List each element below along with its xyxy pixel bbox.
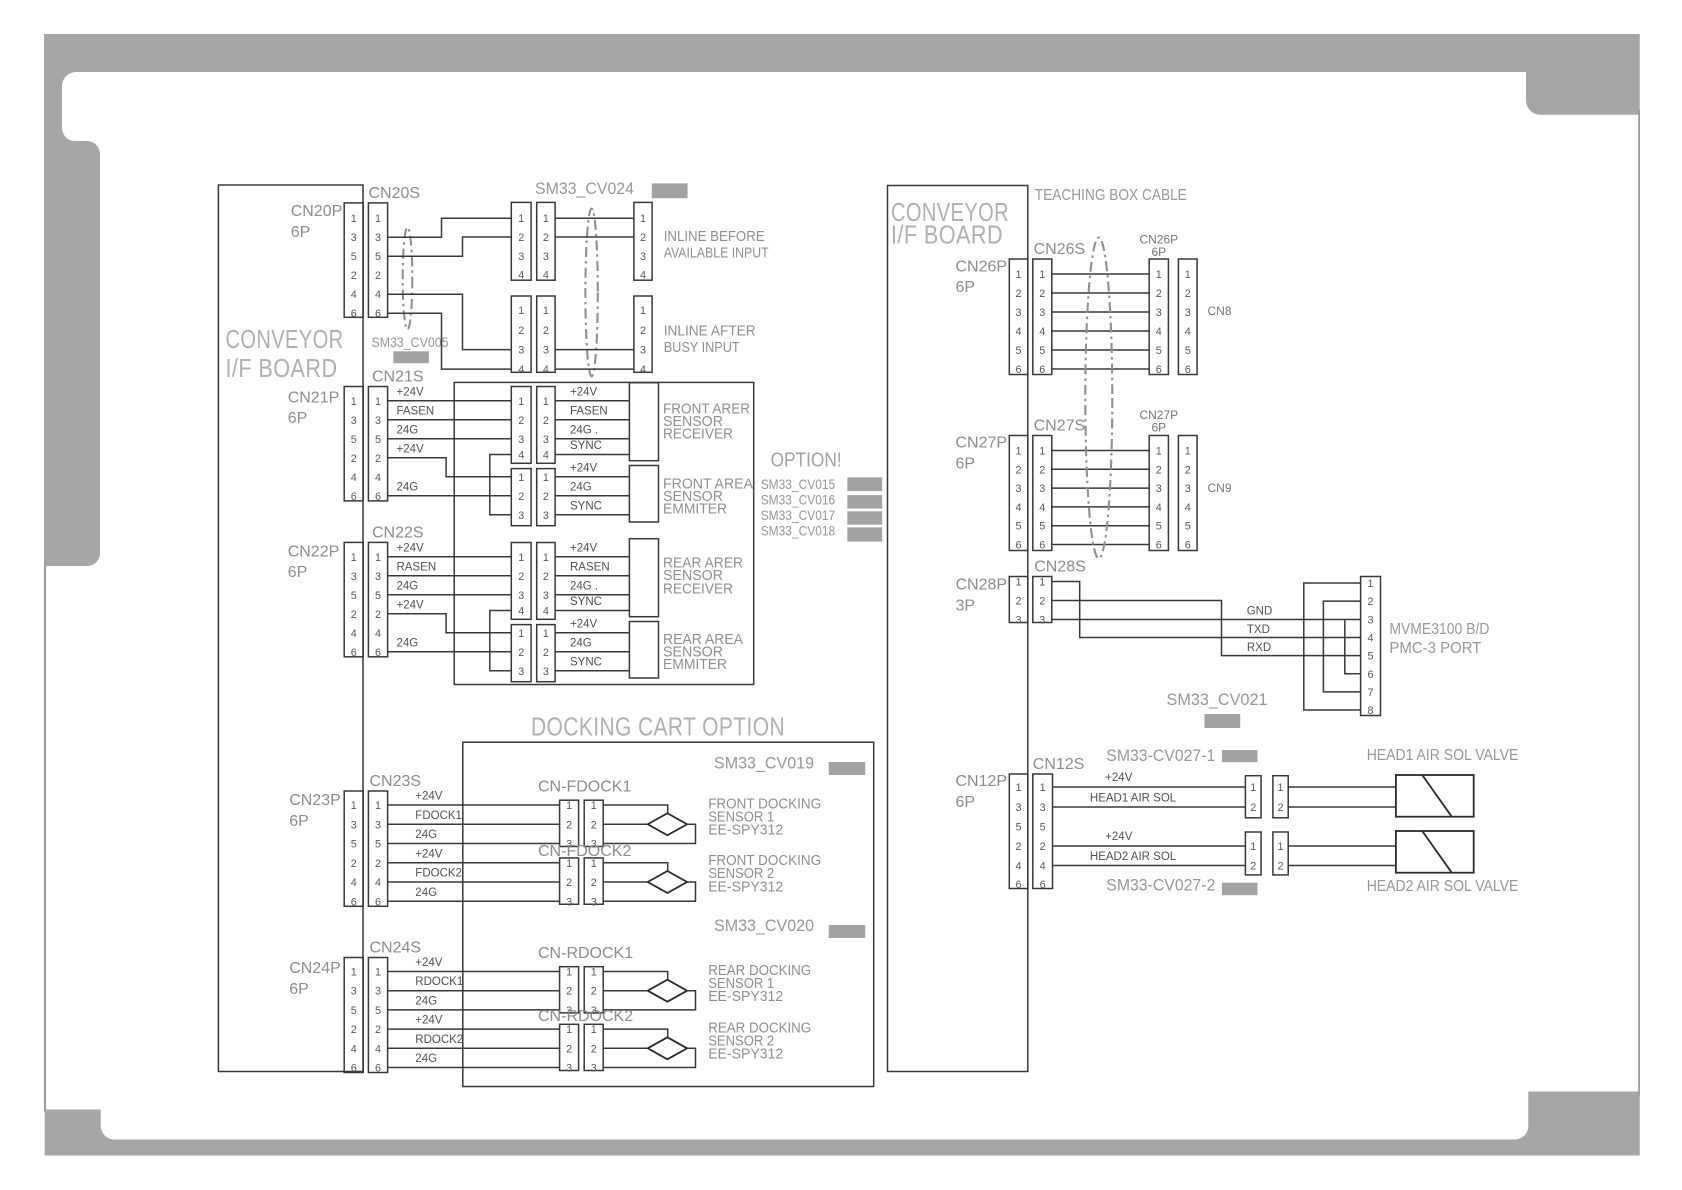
svg-text:2: 2 [1250, 861, 1256, 873]
svg-text:3: 3 [1039, 483, 1045, 495]
wires head2 socket to valve [1288, 846, 1396, 866]
svg-text:6: 6 [1185, 540, 1191, 552]
svg-text:3: 3 [1185, 483, 1191, 495]
svg-text:3: 3 [1368, 614, 1374, 626]
svg-text:2: 2 [351, 609, 357, 621]
svg-text:3: 3 [518, 345, 524, 357]
wire CN28S pin3 GND to MVME pin3 [1052, 619, 1361, 621]
svg-text:4: 4 [1016, 502, 1022, 514]
svg-text:1: 1 [375, 213, 381, 225]
connector inline-before device pins [634, 202, 652, 281]
sensor diamond FRONT DOCKING SENSOR 1 EE-SPY312 [648, 813, 687, 835]
svg-text:2: 2 [375, 453, 381, 465]
svg-text:+24V: +24V [415, 791, 443, 803]
conveyor I/F board (right) outline [888, 186, 1028, 1072]
svg-text:6: 6 [375, 308, 381, 320]
svg-text:SM33_CV020: SM33_CV020 [714, 917, 814, 935]
svg-text:3: 3 [375, 986, 381, 998]
svg-text:1: 1 [543, 552, 549, 564]
connector CN8 [1178, 259, 1197, 376]
svg-text:3: 3 [518, 666, 524, 678]
svg-text:5: 5 [1156, 521, 1162, 533]
svg-text:2: 2 [375, 858, 381, 870]
svg-text:2: 2 [543, 415, 549, 427]
svg-text:AVAILABLE INPUT: AVAILABLE INPUT [664, 246, 769, 262]
svg-text:2: 2 [1039, 464, 1045, 476]
svg-text:5: 5 [351, 839, 357, 851]
wire loop MVME pin2 to pin7 [1323, 601, 1360, 692]
svg-text:+24V: +24V [415, 1015, 443, 1027]
connector CN12P [1009, 774, 1028, 891]
svg-text:2: 2 [1185, 464, 1191, 476]
svg-text:1: 1 [1039, 446, 1045, 458]
svg-text:2: 2 [543, 232, 549, 244]
svg-text:6: 6 [351, 308, 357, 320]
svg-text:24G: 24G [415, 995, 437, 1007]
svg-text:4: 4 [518, 269, 524, 281]
connector CN24S [368, 958, 387, 1075]
svg-text:SM33_CV018: SM33_CV018 [761, 523, 836, 539]
label FRONT DOCKING SENSOR 1 EE-SPY312 [708, 797, 821, 839]
svg-text:1: 1 [566, 800, 572, 812]
svg-text:3: 3 [1156, 307, 1162, 319]
svg-text:+24V: +24V [397, 542, 425, 554]
svg-text:3: 3 [518, 510, 524, 522]
svg-text:1: 1 [518, 472, 524, 484]
svg-text:24G: 24G [415, 829, 437, 841]
svg-text:+24V: +24V [570, 542, 598, 554]
svg-text:SYNC: SYNC [570, 596, 602, 608]
svg-text:2: 2 [640, 232, 646, 244]
svg-text:24G: 24G [570, 481, 592, 493]
svg-text:RASEN: RASEN [570, 561, 610, 573]
svg-text:2: 2 [351, 453, 357, 465]
svg-text:4: 4 [351, 1043, 357, 1055]
svg-text:4: 4 [351, 472, 357, 484]
svg-text:CN24S: CN24S [370, 940, 422, 957]
svg-text:1: 1 [351, 213, 357, 225]
label REAR AREA SENSOR EMMITER [663, 632, 743, 673]
svg-text:6: 6 [1016, 879, 1022, 891]
svg-text:CN23P: CN23P [289, 792, 341, 809]
wire CN12S pin3 HEAD1 AIR SOL [1053, 806, 1246, 808]
wires rear receiver socket to device [555, 557, 629, 611]
wire inline-after socket pin3 to device [555, 349, 634, 351]
svg-text:CN20S: CN20S [369, 185, 421, 202]
label CN26P 6P (remote) [1139, 233, 1178, 260]
svg-text:6: 6 [375, 491, 381, 503]
svg-text:3: 3 [518, 590, 524, 602]
wire CN23S FDOCK1 row2 [388, 823, 560, 825]
device box FRONT AREA SENSOR EMMITER [629, 466, 658, 523]
wire CN23S +24V row1 [388, 804, 560, 806]
svg-text:CN-FDOCK1: CN-FDOCK1 [538, 779, 631, 796]
svg-text:1: 1 [1250, 841, 1256, 853]
svg-text:5: 5 [1039, 345, 1045, 357]
svg-text:6: 6 [1016, 540, 1022, 552]
connector CN28P [1009, 577, 1028, 627]
svg-text:1: 1 [566, 967, 572, 979]
svg-text:6: 6 [1039, 364, 1045, 376]
svg-text:3: 3 [1039, 307, 1045, 319]
svg-text:2: 2 [351, 858, 357, 870]
label CN21P 6P [288, 389, 340, 427]
device box FRONT ARER SENSOR RECEIVER [629, 383, 658, 461]
svg-text:3: 3 [543, 510, 549, 522]
svg-text:3: 3 [375, 819, 381, 831]
wires CN27S to remote CN27P (6 lines) [1052, 451, 1149, 545]
svg-text:6P: 6P [1151, 421, 1166, 435]
connector inline-before plug [511, 202, 531, 281]
wires front receiver socket to device [555, 401, 629, 455]
svg-text:HEAD2 AIR SOL VALVE: HEAD2 AIR SOL VALVE [1367, 878, 1519, 895]
svg-text:1: 1 [543, 305, 549, 317]
svg-text:1: 1 [375, 800, 381, 812]
svg-text:2: 2 [543, 571, 549, 583]
color chip SM33-CV027-2 [1222, 883, 1258, 896]
label REAR DOCKING SENSOR 2 EE-SPY312 [708, 1021, 811, 1063]
svg-text:EE-SPY312: EE-SPY312 [708, 823, 783, 839]
svg-text:6: 6 [1016, 364, 1022, 376]
svg-text:5: 5 [375, 251, 381, 263]
svg-text:3: 3 [1040, 802, 1046, 814]
svg-text:3: 3 [518, 434, 524, 446]
svg-text:SM33_CV016: SM33_CV016 [761, 492, 836, 508]
svg-text:4: 4 [375, 472, 381, 484]
connector CN27P (remote) [1149, 436, 1168, 552]
svg-text:5: 5 [351, 1005, 357, 1017]
svg-text:2: 2 [591, 877, 597, 889]
svg-text:24G: 24G [397, 637, 419, 649]
connector rear-receiver plug [511, 543, 531, 620]
svg-text:5: 5 [351, 251, 357, 263]
svg-text:1: 1 [518, 213, 524, 225]
svg-text:3: 3 [543, 666, 549, 678]
wire CN-RDOCK2 pin3 to diamond right [603, 1048, 695, 1067]
svg-text:3: 3 [543, 434, 549, 446]
svg-text:6: 6 [351, 491, 357, 503]
connector CN21P [344, 387, 363, 503]
color chip SM33_CV005 [393, 351, 429, 363]
svg-text:4: 4 [1185, 326, 1191, 338]
wire inline-before socket pin1 to device [555, 217, 634, 219]
connector front-emitter plug [511, 469, 531, 526]
wire CN12S pin4 HEAD2 AIR SOL [1053, 865, 1246, 867]
svg-text:6P: 6P [288, 564, 308, 581]
connector MVME3100 PMC-3 port [1361, 577, 1381, 718]
connector CN22S [368, 542, 387, 658]
color chip SM33_CV021 [1205, 714, 1241, 728]
wire CN24S +24V row1 [388, 971, 560, 973]
svg-text:4: 4 [518, 364, 524, 376]
svg-text:CN28P: CN28P [956, 577, 1008, 594]
svg-text:1: 1 [375, 396, 381, 408]
wire CN23S 24G row3 [388, 843, 560, 845]
svg-text:4: 4 [351, 289, 357, 301]
svg-text:1: 1 [591, 967, 597, 979]
svg-text:CN26P: CN26P [956, 259, 1008, 276]
wire CN-FDOCK1 pin2 to diamond left [603, 823, 648, 825]
svg-text:2: 2 [1156, 464, 1162, 476]
svg-text:+24V: +24V [397, 443, 425, 455]
connector inline-after device pins [634, 296, 652, 376]
svg-text:1: 1 [1156, 269, 1162, 281]
svg-text:1: 1 [640, 213, 646, 225]
svg-text:1: 1 [1016, 577, 1022, 589]
sensor option enclosure box [454, 382, 754, 684]
svg-text:I/F BOARD: I/F BOARD [891, 220, 1003, 250]
svg-text:1: 1 [1156, 446, 1162, 458]
svg-text:3: 3 [351, 232, 357, 244]
svg-text:EMMITER: EMMITER [663, 657, 727, 673]
svg-text:TXD: TXD [1247, 624, 1270, 636]
color chip SM33_CV017 [847, 511, 882, 524]
svg-text:HEAD1 AIR SOL VALVE: HEAD1 AIR SOL VALVE [1367, 747, 1519, 764]
connector CN-FDOCK2 socket [584, 858, 603, 909]
connector CN-RDOCK2 socket [584, 1024, 603, 1074]
valve HEAD1 AIR SOL VALVE [1396, 775, 1474, 817]
conveyor I/F board (left) outline [218, 185, 363, 1072]
svg-text:2: 2 [1016, 841, 1022, 853]
svg-text:4: 4 [1185, 502, 1191, 514]
svg-text:4: 4 [543, 606, 549, 618]
svg-text:4: 4 [640, 364, 646, 376]
svg-text:4: 4 [375, 289, 381, 301]
svg-text:5: 5 [375, 434, 381, 446]
svg-text:5: 5 [375, 1005, 381, 1017]
wire CN20S pin5 to plug pin2 [388, 237, 512, 256]
connector CN20P [344, 203, 363, 320]
device box REAR ARER SENSOR RECEIVER [629, 539, 658, 617]
svg-text:6: 6 [375, 647, 381, 659]
svg-text:CN9: CN9 [1208, 481, 1232, 495]
wire CN-RDOCK2 pin1 to diamond top [603, 1029, 668, 1037]
svg-text:2: 2 [518, 571, 524, 583]
svg-text:RECEIVER: RECEIVER [663, 582, 733, 598]
connector inline-after socket [537, 296, 555, 376]
wire CN-FDOCK1 pin1 to diamond top [603, 805, 668, 813]
svg-text:1: 1 [1250, 782, 1256, 794]
svg-text:2: 2 [566, 819, 572, 831]
svg-text:3: 3 [640, 251, 646, 263]
svg-text:3: 3 [1185, 307, 1191, 319]
svg-text:3: 3 [375, 571, 381, 583]
svg-text:I/F BOARD: I/F BOARD [226, 353, 338, 383]
svg-text:4: 4 [543, 364, 549, 376]
svg-text:CN-RDOCK2: CN-RDOCK2 [538, 1008, 633, 1025]
svg-text:SM33_CV021: SM33_CV021 [1167, 691, 1268, 709]
connector rear-emitter plug [511, 625, 531, 682]
net labels +24V FASEN 24G SYNC (front receiver) [570, 386, 608, 452]
svg-text:CN12S: CN12S [1033, 756, 1085, 773]
svg-text:RASEN: RASEN [397, 561, 437, 573]
svg-text:2: 2 [591, 986, 597, 998]
connector CN-FDOCK2 plug [560, 858, 579, 909]
svg-text:SM33-CV027-1: SM33-CV027-1 [1106, 747, 1215, 765]
svg-text:6: 6 [351, 896, 357, 908]
label CN28P 3P [956, 577, 1008, 615]
wire CN23S +24V row4 [388, 862, 560, 864]
svg-text:EE-SPY312: EE-SPY312 [708, 1047, 783, 1063]
svg-text:2: 2 [566, 877, 572, 889]
svg-text:CN26S: CN26S [1034, 241, 1086, 258]
connector CN27S [1033, 436, 1052, 552]
svg-text:3: 3 [1016, 615, 1022, 627]
svg-text:3: 3 [375, 232, 381, 244]
sensor diamond REAR DOCKING SENSOR 1 EE-SPY312 [648, 980, 687, 1002]
svg-text:4: 4 [1156, 502, 1162, 514]
cable ellipse SM33_CV005 [403, 227, 413, 329]
label CN24P 6P [289, 960, 341, 998]
svg-text:4: 4 [375, 877, 381, 889]
svg-text:2: 2 [1039, 596, 1045, 608]
wire CN24S RDOCK1 row2 [388, 990, 560, 992]
svg-text:1: 1 [543, 396, 549, 408]
svg-text:FDOCK1: FDOCK1 [415, 810, 462, 822]
svg-text:6: 6 [375, 896, 381, 908]
svg-text:3: 3 [543, 251, 549, 263]
label CN12P 6P [956, 773, 1008, 811]
svg-text:SM33_CV015: SM33_CV015 [761, 476, 836, 492]
svg-text:3: 3 [351, 571, 357, 583]
svg-text:+24V: +24V [1105, 831, 1133, 843]
wire GND stub to MVME pin6 [1345, 620, 1361, 674]
label REAR DOCKING SENSOR 1 EE-SPY312 [708, 963, 811, 1005]
connector CN26P [1009, 259, 1028, 376]
svg-text:2: 2 [1250, 802, 1256, 814]
svg-text:1: 1 [543, 472, 549, 484]
svg-text:PMC-3 PORT: PMC-3 PORT [1389, 640, 1481, 657]
svg-text:CONVEYOR: CONVEYOR [226, 324, 344, 354]
net labels +24V 24G SYNC (rear emitter) [570, 618, 602, 668]
svg-text:5: 5 [1016, 345, 1022, 357]
svg-text:4: 4 [1039, 326, 1045, 338]
svg-text:2: 2 [375, 1024, 381, 1036]
svg-text:6P: 6P [1151, 245, 1166, 259]
svg-text:1: 1 [1278, 782, 1284, 794]
svg-text:2: 2 [1156, 288, 1162, 300]
svg-text:6P: 6P [956, 456, 976, 473]
svg-text:3: 3 [351, 819, 357, 831]
connector CN23S [368, 791, 387, 908]
wire CN23S FDOCK2 row5 [388, 881, 560, 883]
svg-text:1: 1 [566, 1024, 572, 1036]
connector CN27P [1009, 436, 1028, 552]
svg-text:+24V: +24V [397, 386, 425, 398]
svg-text:2: 2 [518, 647, 524, 659]
wire SYNC loop receiver pin4 to emitter pin3 [490, 455, 512, 515]
wires front emitter socket to device [555, 477, 629, 515]
svg-text:MVME3100 B/D: MVME3100 B/D [1389, 621, 1489, 638]
wire CN-FDOCK2 pin1 to diamond top [603, 863, 668, 871]
svg-text:INLINE BEFORE: INLINE BEFORE [664, 229, 765, 245]
svg-text:2: 2 [566, 986, 572, 998]
wire SYNC loop rear receiver pin4 to emitter pin3 [490, 611, 512, 671]
svg-text:2: 2 [591, 819, 597, 831]
connector front-receiver socket [537, 387, 555, 464]
connector head2 sol plug [1245, 832, 1261, 875]
wire inline-before socket pin2 to device [555, 236, 634, 238]
color chip SM33_CV020 [829, 925, 866, 938]
label FRONT ARER SENSOR RECEIVER [663, 402, 750, 443]
svg-text:4: 4 [351, 628, 357, 640]
svg-text:4: 4 [543, 450, 549, 462]
connector inline-after plug [511, 296, 531, 376]
svg-text:FASEN: FASEN [570, 405, 608, 417]
wire CN24S 24G row3 [388, 1009, 560, 1011]
color chip SM33_CV024 [652, 183, 688, 198]
connector CN26S [1033, 259, 1052, 376]
svg-text:1: 1 [591, 1024, 597, 1036]
connector CN26P (remote) [1149, 259, 1168, 376]
label INLINE BEFORE AVAILABLE INPUT [664, 229, 769, 262]
svg-text:3: 3 [351, 986, 357, 998]
connector head1 sol plug [1245, 776, 1261, 818]
svg-text:3: 3 [1016, 307, 1022, 319]
svg-text:SYNC: SYNC [570, 656, 602, 668]
connector head2 sol socket [1273, 832, 1288, 875]
valve HEAD2 AIR SOL VALVE [1396, 831, 1474, 873]
svg-text:1: 1 [543, 213, 549, 225]
wire CN24S +24V row4 [388, 1028, 560, 1030]
svg-text:GND: GND [1247, 606, 1273, 618]
svg-text:6: 6 [1156, 540, 1162, 552]
svg-text:+24V: +24V [415, 957, 443, 969]
svg-text:2: 2 [1016, 464, 1022, 476]
svg-text:1: 1 [351, 967, 357, 979]
wire CN22S pin5 24G [388, 594, 512, 596]
svg-text:5: 5 [1040, 822, 1046, 834]
connector CN12S [1033, 774, 1053, 891]
net labels +24V RASEN 24G SYNC (rear receiver) [570, 542, 610, 608]
connector inline-before socket [537, 202, 555, 281]
svg-text:6: 6 [351, 647, 357, 659]
svg-text:3: 3 [566, 896, 572, 908]
svg-text:CN24P: CN24P [289, 960, 341, 977]
svg-text:INLINE AFTER: INLINE AFTER [664, 324, 756, 340]
svg-text:1: 1 [1040, 782, 1046, 794]
wires head1 socket to valve [1288, 787, 1396, 807]
svg-text:5: 5 [375, 590, 381, 602]
svg-text:5: 5 [1185, 345, 1191, 357]
svg-text:3: 3 [375, 415, 381, 427]
svg-text:6P: 6P [956, 794, 976, 811]
wire CN-RDOCK1 pin1 to diamond top [603, 972, 668, 980]
svg-text:3: 3 [1016, 483, 1022, 495]
wire CN22S pin1 +24V [388, 556, 512, 558]
connector CN21S [368, 387, 387, 503]
svg-text:2: 2 [1016, 596, 1022, 608]
label INLINE AFTER BUSY INPUT [664, 324, 756, 357]
svg-text:1: 1 [1039, 269, 1045, 281]
svg-text:1: 1 [640, 305, 646, 317]
svg-text:2: 2 [375, 609, 381, 621]
svg-text:1: 1 [591, 858, 597, 870]
svg-text:2: 2 [1040, 841, 1046, 853]
svg-text:6P: 6P [289, 981, 309, 998]
svg-text:3: 3 [591, 1063, 597, 1075]
connector CN-RDOCK1 plug [560, 967, 579, 1017]
label CN26P 6P (board) [956, 259, 1008, 297]
wire CN28S pin1 TXD to MVME pin4 [1052, 582, 1361, 638]
svg-text:+24V: +24V [570, 618, 598, 630]
wires CN26S to remote CN26P (6 lines) [1052, 274, 1149, 369]
color chip SM33_CV019 [829, 762, 866, 775]
svg-text:2: 2 [351, 1024, 357, 1036]
svg-text:3P: 3P [956, 598, 976, 615]
svg-text:3: 3 [640, 345, 646, 357]
svg-text:4: 4 [543, 269, 549, 281]
